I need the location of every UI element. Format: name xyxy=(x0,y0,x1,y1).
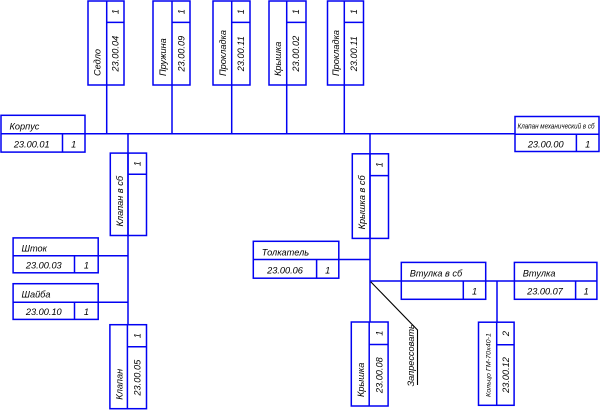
box Клапан 23.00.05 (vertical) xyxy=(110,325,147,409)
svg-text:Клапан в сб: Клапан в сб xyxy=(115,175,125,226)
note Запрессовать xyxy=(406,324,416,386)
svg-text:1: 1 xyxy=(349,9,359,14)
svg-text:Кольцо ГМ-70х40-1: Кольцо ГМ-70х40-1 xyxy=(486,333,493,397)
wire w5 from Прокладка-2 to main line xyxy=(343,85,345,134)
svg-text:Клапан: Клапан xyxy=(114,369,124,400)
box Пружина 23.00.09 (vertical) xyxy=(153,1,190,85)
svg-text:Крышка: Крышка xyxy=(356,363,366,397)
wire Втулка в сб to Втулка connector xyxy=(486,280,514,282)
svg-text:Втулка в сб: Втулка в сб xyxy=(410,268,463,278)
svg-text:23.00.04: 23.00.04 xyxy=(111,36,121,73)
box Корпус 23.00.01 xyxy=(1,115,85,152)
svg-text:Крышка в сб: Крышка в сб xyxy=(357,175,367,230)
box Крышка в сб (subassembly, vertical) xyxy=(352,154,388,239)
svg-text:2: 2 xyxy=(501,331,511,337)
svg-text:23.00.06: 23.00.06 xyxy=(266,265,304,275)
svg-text:23.00.05: 23.00.05 xyxy=(133,359,143,397)
svg-text:1: 1 xyxy=(84,307,89,317)
svg-text:23.00.12: 23.00.12 xyxy=(501,357,511,394)
box Шток 23.00.03 xyxy=(13,238,98,273)
wire w4 from Крышка to main line xyxy=(286,85,288,134)
box Крышка 23.00.08 (vertical) xyxy=(351,322,388,406)
svg-text:Корпус: Корпус xyxy=(10,122,40,132)
svg-text:23.00.03: 23.00.03 xyxy=(25,261,63,271)
svg-text:Крышка: Крышка xyxy=(273,42,283,76)
svg-text:1: 1 xyxy=(71,140,76,150)
svg-text:1: 1 xyxy=(584,287,589,297)
box Толкатель 23.00.06 xyxy=(253,241,338,278)
svg-text:1: 1 xyxy=(291,9,301,14)
wire w3 from Прокладка to main line xyxy=(231,85,233,134)
svg-text:23.00.01: 23.00.01 xyxy=(13,140,50,150)
wire w2 from Пружина to main line xyxy=(171,85,173,134)
svg-text:1: 1 xyxy=(472,287,477,297)
wire w7 Крышка branch vertical xyxy=(369,134,371,322)
svg-text:1: 1 xyxy=(375,162,385,167)
svg-text:23.00.02: 23.00.02 xyxy=(291,36,301,73)
svg-text:1: 1 xyxy=(585,140,590,150)
svg-text:Клапан механический в сб: Клапан механический в сб xyxy=(518,122,596,131)
svg-text:1: 1 xyxy=(325,265,330,275)
box Кольцо ГМ-70х40-1 23.00.12 (vertical) xyxy=(479,322,515,405)
svg-text:23.00.10: 23.00.10 xyxy=(25,307,63,317)
svg-text:23.00.09: 23.00.09 xyxy=(176,36,186,73)
box Седло 23.00.04 (vertical) xyxy=(88,1,124,85)
leader line Запрессовать xyxy=(371,282,418,385)
wire Толкатель connector xyxy=(339,259,370,261)
svg-text:Пружина: Пружина xyxy=(158,38,168,76)
box Клапан в сб (subassembly, vertical) xyxy=(110,153,146,235)
wire Шток connector xyxy=(98,255,128,257)
box Прокладка-2 23.00.11 (vertical) xyxy=(328,1,364,85)
svg-text:1: 1 xyxy=(374,331,384,336)
wire Втулка в сб left connector xyxy=(370,280,401,282)
svg-text:1: 1 xyxy=(133,161,143,166)
box Прокладка 23.00.11 (vertical) xyxy=(213,1,250,85)
box Шайба 23.00.10 xyxy=(13,284,98,320)
svg-text:Седло: Седло xyxy=(93,49,103,76)
svg-text:23.00.00: 23.00.00 xyxy=(527,140,565,150)
svg-text:Прокладка: Прокладка xyxy=(331,30,341,76)
svg-text:Толкатель: Толкатель xyxy=(262,247,309,257)
box Клапан механический в сб 23.00.00 xyxy=(515,117,599,152)
wire w6 Клапан branch vertical xyxy=(127,134,129,325)
svg-text:Прокладка: Прокладка xyxy=(218,30,228,76)
svg-text:23.00.11: 23.00.11 xyxy=(349,36,359,72)
svg-text:23.00.08: 23.00.08 xyxy=(374,356,384,394)
svg-text:Запрессовать: Запрессовать xyxy=(406,324,416,386)
wire main assembly line xyxy=(85,133,515,135)
wire Шайба connector xyxy=(98,301,128,303)
svg-text:1: 1 xyxy=(111,9,121,14)
svg-text:Шток: Шток xyxy=(22,244,48,254)
svg-text:1: 1 xyxy=(133,333,143,338)
svg-text:1: 1 xyxy=(84,261,89,271)
wire w8 Кольцо branch vertical xyxy=(496,281,498,322)
svg-text:1: 1 xyxy=(236,9,246,14)
box Крышка 23.00.02 (vertical) xyxy=(269,1,306,85)
wire w1 from Седло to main line xyxy=(106,85,108,134)
svg-text:23.00.11: 23.00.11 xyxy=(236,36,246,72)
box Втулка в сб (subassembly) xyxy=(401,262,485,299)
svg-text:Втулка: Втулка xyxy=(523,268,556,278)
svg-text:23.00.07: 23.00.07 xyxy=(526,287,564,297)
svg-text:1: 1 xyxy=(176,9,186,14)
box Втулка 23.00.07 xyxy=(514,262,597,299)
svg-text:Шайба: Шайба xyxy=(22,290,51,300)
